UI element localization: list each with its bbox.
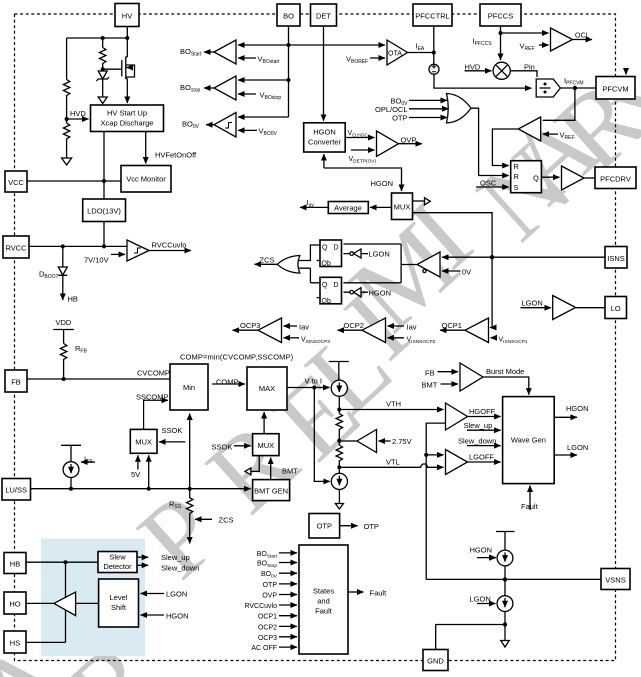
- current source VTH: [331, 380, 347, 396]
- wire HO to buffer: [26, 602, 54, 604]
- wire Slew_down into WaveGen: [467, 445, 501, 447]
- svg-text:LDO(13V): LDO(13V): [87, 207, 121, 216]
- svg-text:HVD: HVD: [70, 109, 86, 118]
- svg-text:OTP: OTP: [317, 522, 332, 531]
- wire LGON into level shift: [141, 593, 165, 595]
- svg-text:OTA: OTA: [388, 51, 402, 58]
- wire SSCOMP from mux: [144, 400, 168, 429]
- wire PFCCS down: [500, 26, 502, 60]
- block MAX: [247, 367, 287, 410]
- svg-text:MUX: MUX: [257, 441, 274, 450]
- wire ZCS pointer: [195, 518, 212, 520]
- svg-text:ZCS: ZCS: [260, 256, 275, 265]
- current source VTL bottom: [331, 473, 347, 489]
- block Min: [170, 364, 208, 410]
- wire MAX to V-to-I: [287, 386, 330, 390]
- wire OTA output / IEA node: [408, 52, 434, 54]
- node 2.75V tap: [338, 431, 340, 445]
- comparator BO0V with hysteresis: [214, 113, 236, 138]
- svg-text:OCP2: OCP2: [258, 624, 277, 631]
- wire FB into Min: [27, 378, 170, 380]
- high-side driver shaded region: [41, 539, 145, 657]
- svg-text:R: R: [514, 162, 520, 171]
- arrow into PFCVM top: [625, 68, 627, 75]
- wire source to divider: [434, 74, 532, 88]
- ground open triangle zener: [98, 97, 107, 104]
- svg-text:HGON: HGON: [371, 179, 394, 188]
- svg-text:ISNS: ISNS: [607, 254, 625, 263]
- node at startup rail HV branch: [125, 36, 129, 40]
- pin box LU/SS: [2, 479, 31, 501]
- wire FF2 Q to OR: [298, 268, 320, 283]
- wires fault inputs: [279, 552, 297, 554]
- pin box PFCCS: [480, 4, 521, 26]
- wire HVFetOnOff: [145, 132, 147, 164]
- wire LGOFF output: [468, 461, 501, 463]
- comparator OVP: [377, 131, 399, 157]
- block Slew Detector: [98, 552, 137, 573]
- resistor divider upper: [63, 80, 69, 96]
- svg-text:Min: Min: [183, 383, 195, 392]
- comparator LGOFF: [446, 450, 468, 475]
- svg-text:Q: Q: [533, 174, 539, 183]
- wire to OCL comparator: [501, 32, 549, 34]
- comparator Burst Mode: [460, 363, 483, 391]
- wire below lower source: [338, 490, 340, 504]
- block Level Shift: [99, 579, 139, 627]
- svg-text:OPL/OCL: OPL/OCL: [375, 105, 408, 114]
- pin box ISNS: [605, 247, 627, 269]
- wire DET down to converter: [323, 26, 325, 121]
- wire OR out to latch R2: [471, 108, 509, 175]
- svg-text:OTP: OTP: [263, 582, 278, 589]
- wire OTP out: [340, 525, 358, 527]
- svg-text:GND: GND: [427, 657, 444, 666]
- svg-text:DET: DET: [316, 12, 331, 21]
- buffer LO driver: [553, 296, 576, 320]
- svg-text:HS: HS: [10, 639, 20, 648]
- latch RRS: [511, 161, 542, 193]
- pin box BO: [277, 4, 300, 26]
- comparator OCP2: [362, 318, 386, 343]
- wire ZCS out: [255, 263, 279, 265]
- svg-text:Level: Level: [110, 593, 128, 602]
- svg-text:RVCCuvlo: RVCCuvlo: [244, 603, 277, 610]
- wire comparator out to latch R1: [492, 129, 518, 166]
- wire HGON into level shift: [141, 614, 165, 616]
- wire Slew_up into WaveGen: [467, 429, 501, 431]
- svg-text:OCP1: OCP1: [258, 614, 277, 621]
- svg-text:OCP1: OCP1: [442, 321, 462, 330]
- wire source to VSNS rail: [504, 566, 506, 580]
- wire OTP into OR: [409, 117, 447, 119]
- wire VTL to LGOFF with hop over vertical: [339, 464, 443, 467]
- block States and Fault: [299, 545, 348, 654]
- wire to HVD node: [66, 95, 68, 119]
- svg-text:Converter: Converter: [308, 138, 341, 147]
- wire HGON output of WaveGen: [554, 416, 577, 418]
- supply bar above VTH source: [329, 362, 349, 381]
- svg-text:OVP: OVP: [262, 593, 277, 600]
- svg-text:SSOK: SSOK: [162, 426, 183, 435]
- wire into BOStart + input: [238, 44, 289, 46]
- block Vcc Monitor: [121, 166, 171, 193]
- pin box FB: [5, 370, 27, 392]
- svg-text:Q: Q: [322, 245, 328, 252]
- svg-text:LGON: LGON: [369, 250, 390, 259]
- svg-text:OCP2: OCP2: [344, 321, 364, 330]
- wire COMP Min to MAX: [212, 383, 245, 385]
- comparator RVCC UVLO: [127, 240, 149, 261]
- comparator OCP3: [258, 318, 282, 343]
- zener diode: [102, 69, 104, 71]
- node VTH: [337, 408, 341, 412]
- wire OSC into S: [476, 186, 509, 188]
- wire Average to Iav: [300, 206, 328, 208]
- svg-text:HGON: HGON: [566, 404, 589, 413]
- wire RVCC rail: [29, 245, 127, 247]
- op-amp OTA: [387, 40, 408, 65]
- svg-text:OCP3: OCP3: [240, 321, 260, 330]
- wire to ground: [504, 625, 506, 641]
- svg-text:Q: Q: [322, 282, 328, 289]
- svg-text:HV Start Up: HV Start Up: [107, 109, 147, 118]
- wire MUX to Average: [370, 206, 392, 208]
- node VCC-LDO: [102, 179, 106, 183]
- wire RSS to ZCS arrow end: [189, 514, 191, 544]
- node rail LDO: [102, 244, 106, 248]
- wire MUX to ISNS junction: [413, 213, 493, 258]
- wire long vertical to VSNS rail: [425, 455, 427, 580]
- svg-text:Pin: Pin: [524, 63, 535, 72]
- wire HGON feedback loop: [323, 154, 325, 168]
- svg-text:and: and: [317, 597, 330, 606]
- wire VTH to HGOFF comparator: [339, 409, 443, 411]
- svg-text:COMP=min(CVCOMP,SSCOMP): COMP=min(CVCOMP,SSCOMP): [180, 353, 294, 362]
- transistor Q1 HV startup FET: [122, 38, 128, 103]
- supply bar VDD: [53, 330, 74, 344]
- flip-flop low side: [320, 277, 342, 304]
- wire PFCCTRL down: [433, 26, 435, 64]
- wire 7V/10V input: [111, 253, 125, 255]
- wire ISNS line: [442, 256, 605, 258]
- svg-text:HGON: HGON: [369, 289, 392, 298]
- svg-text:ZCS: ZCS: [219, 516, 234, 525]
- wire to GND pin: [436, 625, 505, 650]
- svg-text:Vcc Monitor: Vcc Monitor: [126, 175, 166, 184]
- wire MUX open output: [413, 200, 425, 202]
- pin box PFCCTRL: [413, 4, 452, 26]
- svg-text:BMT: BMT: [282, 467, 298, 476]
- pin box VCC: [5, 171, 27, 192]
- resistor VTH-mid: [336, 414, 342, 432]
- wire LDO to RVCC rail: [103, 222, 105, 247]
- svg-text:Iav: Iav: [407, 323, 417, 332]
- wire down to OCP1: [490, 257, 492, 327]
- wire IPFCVM down to comparator: [543, 88, 575, 120]
- wire HGOFF inverting input chain: [426, 423, 445, 455]
- pin box VSNS: [601, 569, 630, 590]
- resistor mid-VTL: [336, 445, 342, 462]
- svg-text:AC OFF: AC OFF: [251, 645, 277, 652]
- comparator OCP1: [465, 318, 489, 343]
- svg-text:VDD: VDD: [56, 318, 72, 327]
- inverter HGON clock: [354, 288, 362, 297]
- svg-text:S: S: [514, 183, 519, 192]
- svg-text:States: States: [313, 587, 335, 596]
- wire HVD into multiplier: [465, 70, 492, 72]
- svg-text:Fault: Fault: [315, 607, 333, 616]
- svg-text:RVCC: RVCC: [5, 244, 27, 253]
- svg-text:Xcap Discharge: Xcap Discharge: [101, 119, 154, 128]
- wire OPL/OCL into OR: [409, 108, 449, 110]
- node VTL: [338, 462, 340, 473]
- flip-flop high side: [320, 240, 342, 267]
- svg-text:CVCOMP: CVCOMP: [137, 369, 170, 378]
- inverter LGON clock: [354, 249, 362, 258]
- svg-text:PFCCS: PFCCS: [488, 12, 513, 21]
- svg-text:COMP: COMP: [216, 378, 239, 387]
- pin box HS: [4, 631, 26, 653]
- block OTP: [309, 514, 340, 539]
- diode DBOOT: [62, 246, 64, 267]
- block HV Start Up / Xcap Discharge: [91, 105, 164, 132]
- pin box PFCDRV: [595, 167, 636, 189]
- ground open triangle vsns: [501, 641, 509, 648]
- wire VSNS rail: [426, 578, 601, 580]
- wire SSOK into mux: [159, 441, 185, 443]
- svg-text:BO: BO: [283, 12, 294, 21]
- comparator OCL: [551, 28, 573, 51]
- svg-text:D: D: [334, 282, 339, 289]
- block Wave Gen: [503, 397, 555, 484]
- supply bar Iss: [61, 445, 81, 461]
- svg-text:MUX: MUX: [394, 203, 411, 212]
- svg-text:VCC: VCC: [8, 178, 24, 187]
- svg-text:5V: 5V: [131, 470, 140, 479]
- svg-text:HB: HB: [68, 295, 78, 304]
- svg-text:VSNS: VSNS: [605, 576, 625, 585]
- svg-text:Detector: Detector: [103, 562, 132, 571]
- svg-text:OVP: OVP: [401, 136, 417, 145]
- svg-text:FB: FB: [425, 369, 435, 378]
- buffer HO driver: [54, 592, 76, 616]
- wire VCC to monitor: [27, 180, 121, 182]
- wire 0V input: [442, 270, 461, 272]
- svg-text:VTH: VTH: [386, 400, 401, 409]
- svg-text:SSOK: SSOK: [212, 443, 233, 452]
- pin box DET: [311, 4, 337, 26]
- node FB: [62, 377, 66, 381]
- svg-text:Iav: Iav: [299, 323, 309, 332]
- svg-text:D: D: [334, 245, 339, 252]
- stub FF2 Qb: [317, 297, 321, 299]
- wire Fault into WaveGen: [529, 486, 531, 511]
- current source Iss: [63, 462, 79, 478]
- svg-text:HGON: HGON: [166, 612, 189, 621]
- svg-text:LGON: LGON: [522, 299, 543, 308]
- svg-text:OCP3: OCP3: [258, 635, 277, 642]
- svg-text:HGON: HGON: [470, 546, 493, 555]
- svg-text:HVFetOnOff: HVFetOnOff: [155, 151, 197, 160]
- node rail Dboot: [61, 244, 65, 248]
- current source HGON: [497, 550, 513, 566]
- resistor startup chain: [99, 48, 105, 70]
- block MUX bmt: [253, 434, 279, 456]
- multiplier: [493, 62, 510, 79]
- wire comparator to FF D inputs: [344, 244, 418, 283]
- wire startup to vcc node: [103, 132, 105, 200]
- wire left sense divider top: [66, 38, 68, 80]
- svg-text:RVCCuvlo: RVCCuvlo: [152, 241, 187, 250]
- svg-text:Wave Gen: Wave Gen: [511, 436, 546, 445]
- supply bar HGON source: [496, 532, 515, 551]
- block Average: [328, 202, 368, 214]
- svg-text:Average: Average: [334, 204, 362, 213]
- wire HVD arrow into startup block: [67, 118, 89, 120]
- svg-text:BMT GEN: BMT GEN: [254, 487, 288, 496]
- svg-text:0V: 0V: [462, 268, 471, 277]
- current source LGON: [497, 596, 513, 612]
- wire mux open output: [251, 456, 259, 472]
- svg-text:VTL: VTL: [386, 458, 400, 467]
- stub FF1 Qb: [317, 260, 321, 262]
- wire RVCCuvlo output: [149, 250, 191, 252]
- wire VtoI branch to lower source: [314, 388, 330, 482]
- buffer 2.75V: [357, 430, 377, 453]
- wire multiplier to divider Pin: [510, 71, 537, 77]
- svg-text:LGOFF: LGOFF: [469, 453, 494, 462]
- svg-text:OCL: OCL: [575, 33, 590, 40]
- wire SSOK into bmt mux: [234, 445, 251, 447]
- wire to ground: [66, 119, 68, 158]
- block LDO(13V): [83, 199, 126, 222]
- svg-text:HO: HO: [9, 600, 20, 609]
- wire buffer to level shift: [76, 602, 99, 604]
- resistor RSS: [187, 489, 193, 514]
- ground open triangle left divider: [62, 158, 72, 165]
- svg-text:HVD: HVD: [465, 63, 481, 72]
- wire 5V into mux: [137, 455, 139, 469]
- svg-text:Qb: Qb: [322, 261, 331, 268]
- node at startup rail left branch: [101, 36, 105, 40]
- wire FF1 Q to OR: [298, 245, 320, 261]
- resistor divider lower: [63, 123, 69, 141]
- ground open triangle below source: [335, 504, 343, 510]
- resistor RFB: [60, 344, 66, 362]
- wire VDET input to OVP: [351, 149, 375, 151]
- wire startup resistor chain: [102, 38, 104, 48]
- svg-text:LGON: LGON: [166, 590, 187, 599]
- wire rail into mux: [148, 455, 150, 488]
- wire BMT into mux: [270, 458, 272, 480]
- svg-text:OSC: OSC: [480, 179, 497, 188]
- svg-text:Slew_down: Slew_down: [458, 437, 496, 446]
- svg-text:HV: HV: [122, 12, 132, 21]
- wire HB to slew detector: [26, 561, 98, 563]
- svg-text:Burst Mode: Burst Mode: [486, 367, 524, 376]
- wire soft-start node up into Min: [189, 414, 191, 489]
- wire HB down to HS: [26, 562, 66, 642]
- svg-text:HGOFF: HGOFF: [469, 407, 496, 416]
- svg-text:Qb: Qb: [322, 298, 331, 305]
- wire Slew_down out: [137, 564, 148, 566]
- pin box HV: [115, 4, 139, 27]
- svg-text:BMT: BMT: [422, 381, 438, 390]
- node HVD: [65, 117, 69, 121]
- svg-text:HB: HB: [10, 560, 20, 569]
- wire HGON pointer: [495, 557, 497, 559]
- wire LGON to LO buffer: [521, 307, 552, 309]
- OR gate ZCS: [277, 255, 300, 273]
- svg-text:7V/10V: 7V/10V: [84, 256, 109, 265]
- current source IEA: [429, 64, 439, 74]
- svg-text:MAX: MAX: [259, 384, 275, 393]
- svg-text:Slew_down: Slew_down: [161, 564, 199, 573]
- block MUX average: [392, 193, 413, 220]
- node gate/zener: [101, 67, 105, 71]
- svg-text:PFCVM: PFCVM: [602, 85, 628, 94]
- comparator BOstop: [214, 76, 236, 100]
- svg-text:FB: FB: [11, 378, 21, 387]
- svg-text:OTP: OTP: [392, 114, 407, 123]
- svg-text:Slew: Slew: [109, 553, 126, 562]
- wire HV down to startup rail: [67, 27, 128, 39]
- block BMT GEN: [253, 480, 290, 501]
- divider block: [536, 79, 560, 97]
- svg-text:Slew_up: Slew_up: [161, 553, 190, 562]
- svg-text:PFCDRV: PFCDRV: [600, 175, 631, 184]
- svg-text:LGON: LGON: [567, 443, 588, 452]
- pin box HO: [4, 592, 26, 614]
- svg-text:Shift: Shift: [111, 603, 127, 612]
- wire LU/SS rail: [31, 488, 251, 490]
- wire Fault out: [348, 591, 364, 593]
- svg-text:LU/SS: LU/SS: [5, 486, 27, 495]
- wire Slew_up out: [137, 556, 148, 558]
- buffer PFC driver: [562, 166, 585, 190]
- comparator zero current: [417, 252, 440, 277]
- pin box RVCC: [3, 236, 29, 258]
- svg-text:V to I: V to I: [305, 377, 323, 386]
- wire gate connection: [103, 68, 122, 70]
- pin box GND: [423, 650, 448, 671]
- svg-text:LO: LO: [611, 304, 621, 313]
- wire HGOFF output: [468, 416, 501, 418]
- svg-text:Fault: Fault: [370, 589, 388, 598]
- svg-text:2.75V: 2.75V: [392, 437, 412, 446]
- wire BO rail to OTA: [289, 44, 386, 46]
- comparator PFC VM control: [518, 117, 540, 141]
- comparator BOStart: [214, 40, 236, 64]
- wire source to VTH node: [338, 396, 340, 413]
- svg-text:OTP: OTP: [364, 522, 379, 531]
- svg-text:MUX: MUX: [135, 438, 152, 447]
- pin box PFCVM: [596, 77, 635, 100]
- wire VBOstart input: [238, 57, 256, 59]
- svg-text:HGON: HGON: [313, 128, 336, 137]
- OR gate OPL fault: [447, 94, 472, 123]
- comparator HGOFF: [446, 403, 468, 430]
- wire mux to MAX: [263, 412, 265, 434]
- wire divider to PFCVM: [560, 87, 596, 89]
- wire converter to OVP: [345, 137, 374, 139]
- pin box HB: [4, 553, 26, 574]
- wire Iss pointer: [81, 461, 95, 463]
- svg-text:R: R: [514, 172, 520, 181]
- wire RFB to FB line: [63, 361, 65, 379]
- block HGON Converter: [304, 123, 346, 152]
